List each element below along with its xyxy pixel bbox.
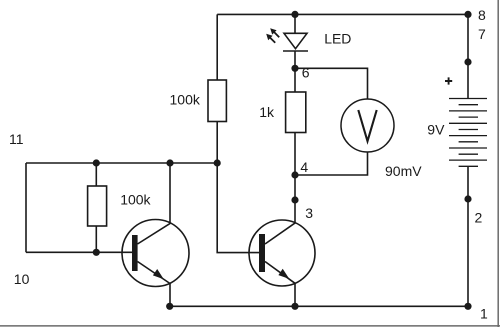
node 4 junction dot [291,171,298,178]
wire: Q1 emitter down to ground rail [169,284,171,307]
node 2 junction dot [464,195,471,202]
svg-text:100k: 100k [120,191,151,207]
svg-text:100k: 100k [170,92,201,108]
svg-text:90mV: 90mV [385,163,422,179]
transistor Q1 emitter arrowhead [153,269,164,279]
node junction dot on top rail at LED [291,11,298,18]
svg-text:3: 3 [305,205,313,221]
resistor R3 1k [286,92,306,133]
transistor Q2 emitter arrowhead [278,269,289,279]
node dot at R1 bottom [214,159,221,166]
node 11 bus dot at R2 [93,159,100,166]
svg-text:1: 1 [480,306,488,322]
wire: node bus down to Q2 base link [217,163,259,253]
transistor Q1 emitter diagonal [138,262,171,284]
LED light arrow 2 [266,34,275,43]
node dot at Q1 collector [166,159,173,166]
voltmeter M1 circle [341,99,394,152]
voltmeter M1 V mark [358,110,376,141]
node 10 dot at R2 bottom [93,249,100,256]
wire: bottom ground rail [170,305,468,307]
page border right [497,0,499,327]
transistor Q1 circle (left NPN) [122,220,189,287]
transistor Q2 base bar [259,234,265,272]
wire: lower-left horizontal to Q1 base [26,251,132,253]
transistor Q1 collector diagonal [138,223,171,244]
wire: node 6 to voltmeter top [295,68,368,99]
wire: battery negative down to bottom rail [467,166,469,306]
svg-text:7: 7 [478,26,486,42]
label + battery positive [445,77,452,84]
transistor Q2 emitter diagonal [265,262,295,284]
svg-text:8: 8 [478,7,486,23]
wire: R1 bottom to node 11 bus [216,122,218,164]
LED D1 triangle [284,33,307,48]
LED light arrow 1 [270,28,279,37]
wire: node 4 to voltmeter bottom [295,152,368,175]
node 8 junction dot [464,11,471,18]
node 6 junction dot [291,65,298,72]
svg-text:9V: 9V [427,121,445,137]
wire: upper-left horizontal bus (node 11) [26,162,217,164]
svg-text:2: 2 [475,210,483,226]
resistor R1 100k (top) [208,80,226,122]
svg-text:11: 11 [9,131,24,147]
node dot Q1 emitter at ground rail [166,303,173,310]
transistor Q1 base bar [132,235,138,271]
node 7 junction dot [464,58,471,65]
svg-text:1k: 1k [259,104,275,120]
svg-text:10: 10 [14,271,30,287]
node 1 junction dot [464,303,471,310]
page border bottom [0,325,500,327]
LED D1 cathode bar [283,50,308,52]
svg-text:4: 4 [300,159,308,175]
node dot Q2 emitter at ground rail [291,303,298,310]
wire: LED cathode to node 6 and 1k [294,51,296,92]
svg-text:LED: LED [324,31,351,47]
transistor Q2 circle (right NPN) [249,220,315,286]
transistor Q2 collector diagonal [265,223,295,244]
node 3 junction dot [291,196,298,203]
wire: Q1 collector up to node bus [169,163,171,223]
wire: far-left vertical [25,163,27,252]
wire: 1k bottom through nodes 4 and 3 to Q2 collector [294,133,296,223]
wire: right rail from node 8 down to battery top [467,14,469,98]
wire: top supply rail [217,13,468,15]
wire: node bus down to 100k R2 top [95,163,97,186]
resistor R2 100k (lower left) [88,186,107,226]
wire: LED anode from top rail [294,14,296,33]
wire: Q2 emitter down to ground rail [294,283,296,306]
wire: R2 bottom to lower bus [95,226,97,252]
wire: left branch down from top rail to 100k R1 [216,14,218,80]
svg-text:6: 6 [302,65,310,81]
battery B1 9V plates [449,99,487,167]
